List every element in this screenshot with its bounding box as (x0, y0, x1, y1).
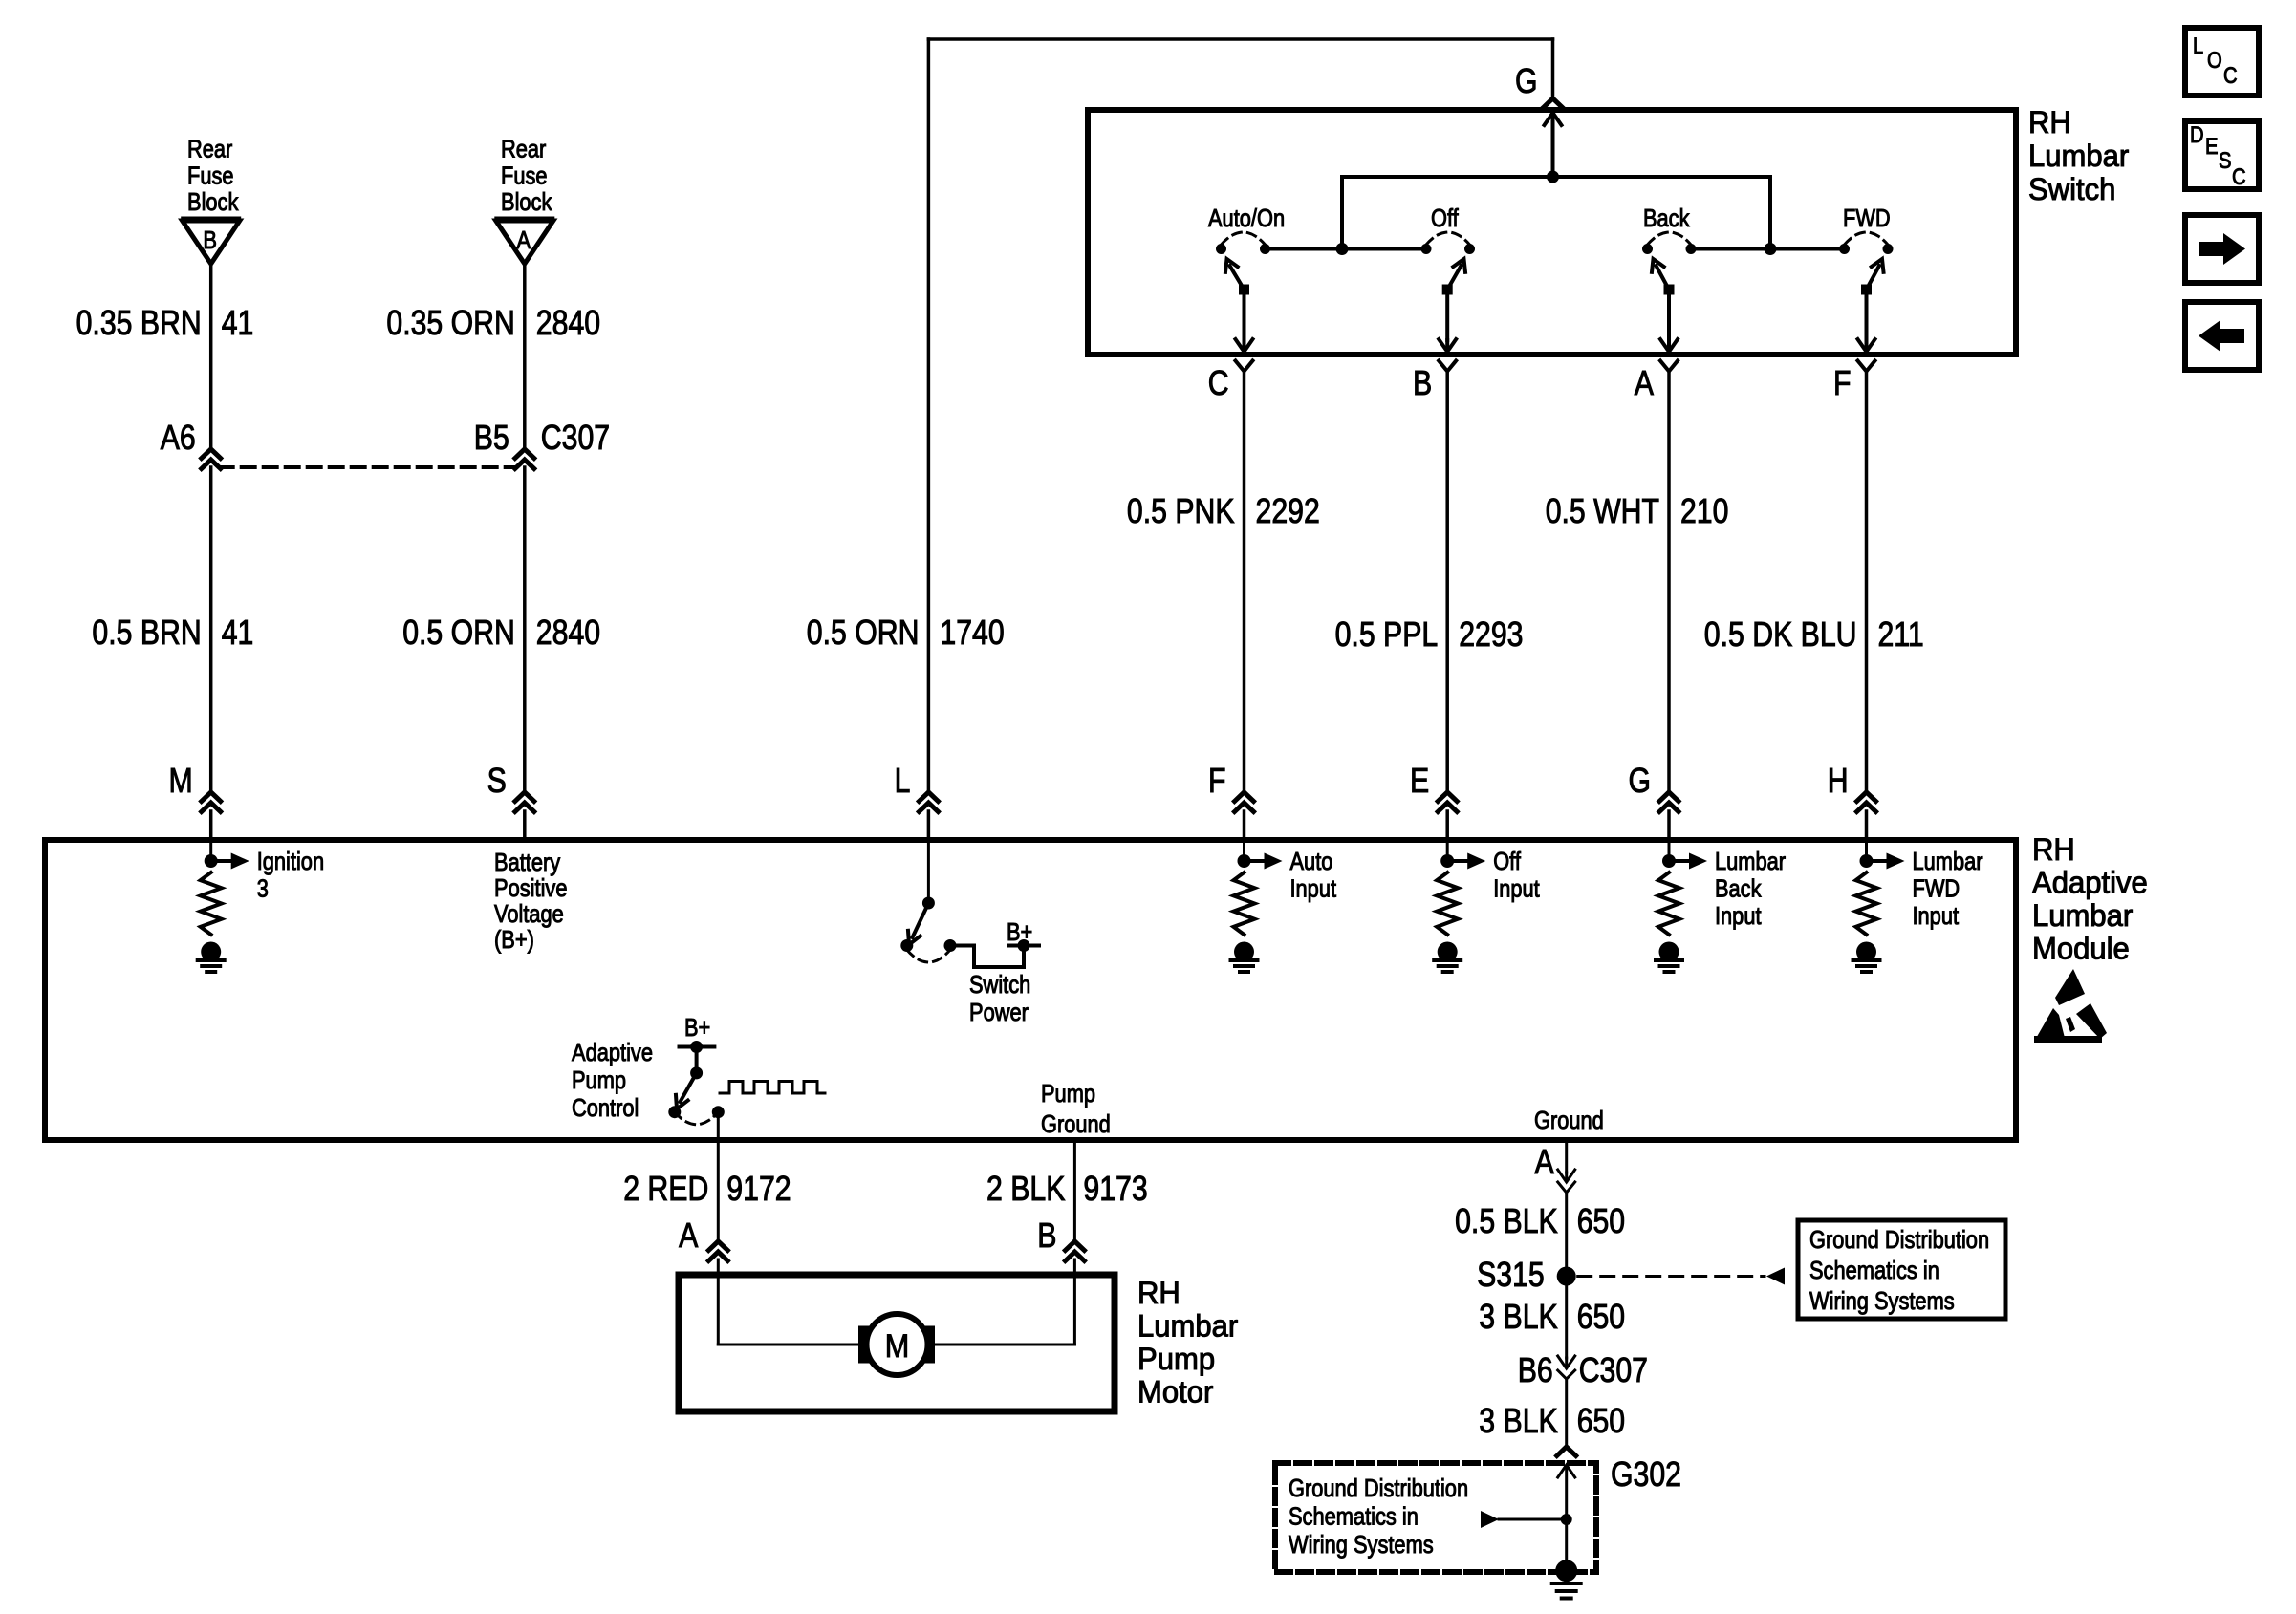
G302 dashed box (1275, 1463, 1596, 1572)
module pin G connector symbol (1629, 761, 1679, 812)
svg-text:Auto/On: Auto/On (1208, 204, 1285, 232)
svg-text:Motor: Motor (1137, 1375, 1214, 1410)
svg-text:9172: 9172 (726, 1169, 791, 1208)
svg-text:E: E (1410, 761, 1429, 800)
svg-text:C: C (2232, 164, 2246, 190)
svg-text:Switch: Switch (2028, 172, 2115, 206)
switch pin A connector symbol (1635, 361, 1678, 403)
module lumbar back input signal arrow (1669, 853, 1707, 870)
motor lead wires (718, 1259, 1074, 1345)
label 0.5 PPL 2293 (1335, 614, 1524, 654)
svg-text:210: 210 (1680, 491, 1728, 530)
ESD sensitive device symbol (2034, 969, 2107, 1043)
svg-text:Pump: Pump (572, 1065, 626, 1094)
switch power feed wire to B+ (950, 946, 1024, 968)
svg-text:Positive: Positive (494, 873, 568, 902)
wire 1740 top horizontal run (928, 37, 1552, 41)
svg-text:650: 650 (1577, 1401, 1625, 1440)
svg-text:2840: 2840 (536, 303, 600, 342)
module ignition 3 pull resistor (201, 872, 222, 935)
svg-text:M: M (169, 761, 193, 800)
G302 reference arrow (1481, 1511, 1567, 1528)
forward navigation arrow box (2185, 215, 2259, 283)
motor pin A connector symbol (679, 1216, 727, 1261)
module lumbar fwd input label (1913, 847, 1983, 930)
svg-text:A: A (517, 226, 531, 254)
svg-text:0.5 BRN: 0.5 BRN (92, 613, 201, 652)
module off input signal arrow (1447, 853, 1485, 870)
pump motor M symbol (858, 1314, 935, 1375)
svg-text:2292: 2292 (1256, 491, 1320, 530)
module auto input label (1290, 847, 1337, 903)
pump ground label (1041, 1079, 1111, 1138)
svg-text:FWD: FWD (1913, 874, 1960, 903)
module off input internal ground (1434, 942, 1461, 973)
wire into module pin M (209, 811, 213, 840)
switch pin B connector symbol (1413, 361, 1456, 403)
svg-text:O: O (2207, 48, 2222, 74)
adaptive pump control contacts and dashed arc (668, 1106, 725, 1125)
G302 label (1611, 1454, 1681, 1494)
Auto/On switch position label (1208, 204, 1285, 232)
svg-text:C: C (1208, 363, 1229, 402)
FWD switch movable arm (1861, 259, 1884, 295)
svg-text:Off: Off (1493, 847, 1521, 875)
svg-text:Rear: Rear (501, 135, 547, 163)
svg-text:41: 41 (222, 303, 254, 342)
label 0.5 ORN 2840 (402, 613, 600, 652)
Auto/On switch output wire with arrow to box edge (1236, 290, 1253, 352)
wire 650 from S315 to connector C307 pin B6 (1565, 1277, 1568, 1359)
connector C307 pin A6 (in-line connector symbol) (161, 418, 221, 469)
svg-text:Input: Input (1715, 901, 1762, 930)
svg-text:Pump: Pump (1137, 1342, 1215, 1376)
svg-text:Input: Input (1493, 874, 1540, 903)
RH adaptive lumbar module name label (2032, 832, 2148, 966)
svg-text:0.5 PNK: 0.5 PNK (1127, 491, 1235, 530)
svg-text:B: B (1413, 363, 1432, 402)
module auto input pull resistor (1234, 872, 1255, 935)
svg-text:B5: B5 (474, 418, 509, 457)
module lumbar fwd input input node (1860, 840, 1874, 868)
connector C307 name label (541, 418, 610, 457)
Off switch position label (1431, 204, 1459, 232)
module auto input internal ground (1231, 942, 1258, 973)
backward navigation arrow box (2185, 302, 2259, 370)
svg-text:A: A (679, 1216, 698, 1255)
label 0.5 PNK 2292 (1127, 491, 1320, 530)
RH lumbar pump motor name label (1137, 1276, 1239, 1410)
switch power B+ terminal (1007, 917, 1039, 952)
switch pin C connector symbol (1208, 361, 1253, 403)
svg-text:S315: S315 (1477, 1255, 1545, 1294)
svg-text:Module: Module (2032, 932, 2130, 966)
module auto input signal arrow (1245, 853, 1283, 870)
svg-text:G: G (1515, 61, 1538, 100)
svg-text:S: S (2219, 148, 2232, 174)
module lumbar fwd input signal arrow (1867, 853, 1905, 870)
G302 internal arrow into box (1558, 1465, 1575, 1519)
Back switch position label (1643, 204, 1690, 232)
label 3 BLK 650 (lower) (1479, 1401, 1625, 1440)
svg-text:Rear: Rear (187, 135, 233, 163)
ground label (1534, 1106, 1604, 1134)
module ground pin A arrow and connector (1558, 1140, 1575, 1193)
svg-text:A: A (1535, 1142, 1554, 1181)
svg-text:C: C (2223, 63, 2238, 89)
G302 junction node (1561, 1514, 1572, 1525)
svg-text:9173: 9173 (1083, 1169, 1147, 1208)
svg-text:Schematics in: Schematics in (1809, 1256, 1939, 1284)
svg-text:G302: G302 (1611, 1454, 1681, 1494)
label 0.5 DK BLU 211 (1704, 614, 1924, 654)
svg-text:(B+): (B+) (494, 925, 534, 954)
svg-text:B+: B+ (684, 1013, 710, 1042)
svg-text:Back: Back (1643, 204, 1690, 232)
svg-text:Lumbar: Lumbar (1137, 1309, 1239, 1344)
wire into module pin L (927, 811, 931, 840)
svg-text:A: A (1635, 363, 1654, 402)
module ignition 3 input node (205, 840, 218, 868)
module ignition 3 signal arrow (211, 853, 249, 870)
module pin S connector symbol (487, 761, 534, 812)
svg-text:0.35 BRN: 0.35 BRN (76, 303, 202, 342)
svg-text:Adaptive: Adaptive (2032, 866, 2148, 900)
svg-text:1740: 1740 (940, 613, 1004, 652)
adaptive pump control label (572, 1038, 653, 1122)
switch pin G connector symbol (1515, 61, 1563, 108)
wire into module pin G (1667, 811, 1671, 840)
adaptive pump control B+ terminal (680, 1013, 715, 1053)
svg-text:Fuse: Fuse (501, 161, 548, 189)
switch power control switch pivot (922, 840, 935, 910)
Back switch output wire with arrow to box edge (1660, 290, 1678, 352)
label 0.5 BLK 650 (1455, 1201, 1625, 1240)
svg-text:Ground: Ground (1534, 1106, 1604, 1134)
labels B6 and C307 (1518, 1350, 1648, 1389)
LOC navigation box (2185, 28, 2259, 96)
RH lumbar switch box (1088, 110, 2016, 355)
rear fuse block connector A label (501, 135, 552, 217)
label 0.5 ORN 1740 (807, 613, 1005, 652)
module lumbar fwd input internal ground (1853, 942, 1880, 973)
rear fuse block connector B label (187, 135, 239, 217)
svg-text:3: 3 (257, 874, 269, 903)
dashed tie line between C307 pins A6 and B5 (220, 465, 516, 469)
svg-text:B6: B6 (1518, 1350, 1553, 1389)
label 3 BLK 650 (upper) (1479, 1297, 1625, 1336)
RH lumbar switch name label (2028, 105, 2130, 206)
svg-text:Input: Input (1913, 901, 1960, 930)
module auto input input node (1238, 840, 1251, 868)
module lumbar fwd input pull resistor (1856, 872, 1877, 935)
svg-text:S: S (487, 761, 507, 800)
switch pin F connector symbol (1833, 361, 1875, 403)
svg-text:Control: Control (572, 1093, 639, 1122)
svg-text:Voltage: Voltage (494, 899, 564, 928)
Off switch output wire with arrow to box edge (1439, 290, 1456, 352)
module lumbar back input input node (1662, 840, 1676, 868)
Back switch movable arm (1652, 259, 1675, 295)
svg-text:41: 41 (222, 613, 254, 652)
svg-text:RH: RH (1137, 1276, 1180, 1310)
module off input input node (1440, 840, 1454, 868)
rear fuse block terminal B (triangle) (183, 219, 240, 264)
ground G302 electrode symbol (1552, 1560, 1581, 1598)
FWD switch position label (1843, 204, 1891, 232)
Auto/On switch movable arm (1225, 259, 1249, 295)
svg-text:Wiring Systems: Wiring Systems (1289, 1530, 1434, 1559)
wire from switch pin B down to module (1445, 372, 1449, 792)
svg-text:3 BLK: 3 BLK (1479, 1401, 1557, 1440)
label 0.5 WHT 210 (1546, 491, 1729, 530)
svg-text:E: E (2205, 134, 2219, 160)
Auto/On switch contacts and dashed throw arc (1216, 232, 1270, 254)
svg-text:Off: Off (1431, 204, 1459, 232)
wire 650 from B6 to ground G302 (1565, 1379, 1568, 1446)
label 0.35 BRN 41 (76, 303, 254, 342)
wire 1740 vertical to module pin L (927, 39, 931, 791)
svg-text:RH: RH (2028, 105, 2071, 140)
svg-text:Auto: Auto (1290, 847, 1333, 875)
svg-text:F: F (1208, 761, 1226, 800)
label 0.5 BRN 41 (92, 613, 253, 652)
wire Back right contact to FWD left contact (1691, 247, 1845, 251)
motor pin B connector symbol (1037, 1216, 1084, 1261)
svg-text:Lumbar: Lumbar (1913, 847, 1983, 875)
svg-text:0.5 DK BLU: 0.5 DK BLU (1704, 614, 1857, 654)
adaptive pump control switch arm (676, 1073, 697, 1109)
switch power control switch arm (908, 903, 928, 945)
RH adaptive lumbar module box (45, 840, 2016, 1140)
connector C307 pin B5 (in-line connector symbol) (474, 418, 534, 469)
module off input label (1493, 847, 1540, 903)
node joining Back and FWD contacts (1765, 243, 1777, 255)
svg-text:M: M (885, 1328, 910, 1365)
svg-text:D: D (2190, 122, 2204, 148)
svg-text:A6: A6 (161, 418, 196, 457)
wire from switch pin F down to module (1865, 372, 1869, 792)
module pin M connector symbol (169, 761, 221, 812)
FWD switch contacts and dashed throw arc (1839, 232, 1894, 254)
wire Auto/On right contact to Off left contact (1266, 247, 1427, 251)
svg-text:L: L (2193, 33, 2203, 59)
dashed reference line from S315 (1578, 1268, 1785, 1285)
svg-text:Power: Power (969, 998, 1029, 1026)
svg-text:Lumbar: Lumbar (2028, 139, 2130, 173)
svg-text:B+: B+ (1007, 917, 1032, 946)
svg-text:Pump: Pump (1041, 1079, 1095, 1108)
svg-text:3 BLK: 3 BLK (1479, 1297, 1557, 1336)
wire into module pin S (523, 811, 527, 840)
adaptive pump control switch pivot (690, 1047, 703, 1080)
svg-text:B: B (1037, 1216, 1056, 1255)
svg-text:Switch: Switch (969, 970, 1030, 999)
module ground pin letter A (1535, 1142, 1554, 1181)
svg-text:Back: Back (1715, 874, 1762, 903)
wire 9173 from module pump ground to motor pin B (1073, 1140, 1076, 1240)
wire 9172 from pump control to motor pin A (717, 1112, 720, 1240)
switch internal supply node junction (1547, 171, 1559, 183)
svg-text:0.5 ORN: 0.5 ORN (807, 613, 920, 652)
svg-text:F: F (1833, 363, 1852, 402)
svg-text:L: L (895, 761, 911, 800)
module pin F connector symbol (1208, 761, 1254, 812)
wire into module pin F (1243, 811, 1246, 840)
switch pin G internal arrow (1545, 113, 1562, 177)
svg-text:211: 211 (1878, 614, 1924, 654)
svg-text:Wiring Systems: Wiring Systems (1809, 1286, 1955, 1315)
svg-text:Ground: Ground (1041, 1109, 1111, 1138)
svg-text:Adaptive: Adaptive (572, 1038, 653, 1066)
svg-text:G: G (1629, 761, 1652, 800)
wire 41 from C307 to module pin M (209, 467, 213, 791)
wire from switch pin A down to module (1667, 372, 1671, 792)
module pin L connector symbol (895, 761, 939, 812)
switch power contacts and dashed arc (900, 939, 956, 962)
Back switch contacts and dashed throw arc (1642, 232, 1697, 254)
label 2 RED 9172 (623, 1169, 791, 1208)
rear fuse block terminal A (triangle) (496, 219, 553, 264)
svg-text:Input: Input (1290, 874, 1337, 903)
svg-text:650: 650 (1577, 1297, 1625, 1336)
Off switch movable arm (1442, 259, 1465, 295)
node joining Auto/On and Off contacts (1336, 243, 1349, 255)
switch internal branch wire (1342, 177, 1770, 249)
module lumbar back input pull resistor (1658, 872, 1679, 935)
Off switch contacts and dashed throw arc (1421, 232, 1476, 254)
G302 connector chevron (1557, 1447, 1576, 1456)
module off input pull resistor (1437, 872, 1458, 935)
svg-text:Schematics in: Schematics in (1289, 1502, 1419, 1531)
module battery voltage label (494, 848, 568, 954)
PWM waveform symbol (720, 1082, 825, 1094)
svg-text:C307: C307 (541, 418, 610, 457)
G302 reference text (1289, 1474, 1468, 1559)
svg-text:650: 650 (1577, 1201, 1625, 1240)
svg-text:Ignition: Ignition (257, 847, 324, 875)
DESC navigation box (2185, 121, 2259, 190)
svg-text:RH: RH (2032, 832, 2075, 867)
svg-text:Block: Block (501, 187, 552, 216)
switch power label (969, 970, 1030, 1026)
module lumbar back input internal ground (1656, 942, 1682, 973)
label 2 BLK 9173 (986, 1169, 1148, 1208)
module ignition 3 label (257, 847, 324, 903)
wire 41 from fuse block B to connector C307 pin A6 (209, 264, 213, 449)
svg-text:Ground Distribution: Ground Distribution (1809, 1225, 1989, 1254)
FWD switch output wire with arrow to box edge (1858, 290, 1875, 352)
wire 2840 from C307 to module pin S (523, 467, 527, 791)
wire drop to switch pin G (1551, 39, 1555, 98)
wire 2840 from fuse block A to connector C307 pin B5 (523, 264, 527, 449)
module lumbar back input label (1715, 847, 1786, 930)
svg-text:0.5 BLK: 0.5 BLK (1455, 1201, 1558, 1240)
svg-text:2 RED: 2 RED (623, 1169, 708, 1208)
module pin H connector symbol (1828, 761, 1876, 812)
svg-text:Fuse: Fuse (187, 161, 234, 189)
RH lumbar pump motor box (679, 1275, 1115, 1411)
svg-text:Battery: Battery (494, 848, 560, 876)
splice S315 (1477, 1255, 1576, 1294)
wire into module pin E (1445, 811, 1449, 840)
label 0.35 ORN 2840 (386, 303, 600, 342)
svg-text:Ground Distribution: Ground Distribution (1289, 1474, 1468, 1502)
wire from switch pin C down to module (1243, 372, 1246, 792)
svg-text:Lumbar: Lumbar (2032, 898, 2134, 933)
wire 650 to splice S315 (1565, 1194, 1568, 1267)
svg-text:2840: 2840 (536, 613, 600, 652)
wire to ground electrode (1565, 1519, 1568, 1560)
svg-text:H: H (1828, 761, 1849, 800)
svg-text:0.5 ORN: 0.5 ORN (402, 613, 515, 652)
svg-text:0.5 WHT: 0.5 WHT (1546, 491, 1659, 530)
svg-text:Block: Block (187, 187, 239, 216)
module ignition 3 internal ground (198, 942, 225, 973)
svg-text:C307: C307 (1579, 1350, 1648, 1389)
svg-text:2 BLK: 2 BLK (986, 1169, 1065, 1208)
svg-text:B: B (203, 226, 217, 254)
ground distribution reference box (1798, 1220, 2005, 1319)
connector C307 pin B6 symbol (1558, 1356, 1575, 1379)
svg-text:FWD: FWD (1843, 204, 1891, 232)
wire into module pin H (1865, 811, 1869, 840)
svg-text:Lumbar: Lumbar (1715, 847, 1786, 875)
svg-text:2293: 2293 (1459, 614, 1523, 654)
svg-text:0.35 ORN: 0.35 ORN (386, 303, 514, 342)
svg-text:0.5 PPL: 0.5 PPL (1335, 614, 1439, 654)
module pin E connector symbol (1410, 761, 1457, 812)
